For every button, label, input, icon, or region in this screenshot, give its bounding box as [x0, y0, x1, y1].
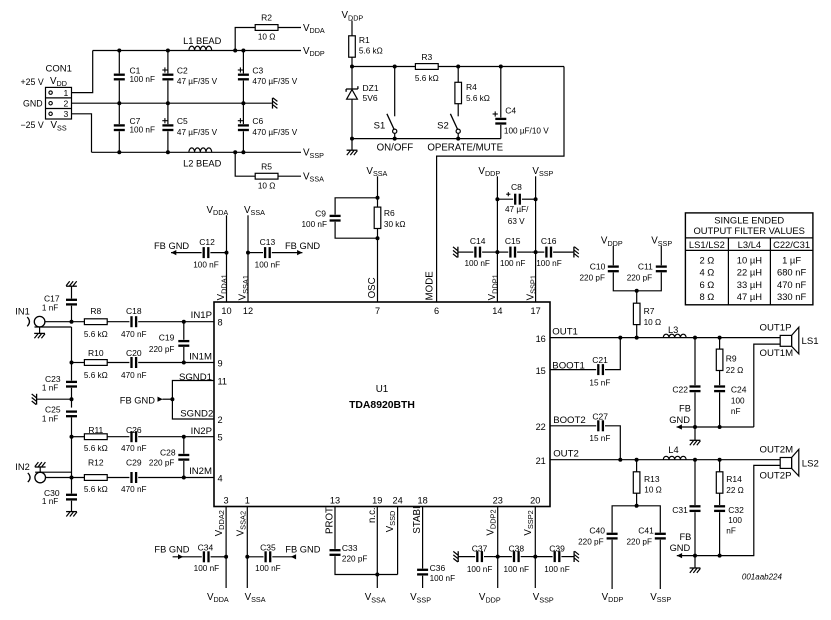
svg-text:30 kΩ: 30 kΩ [384, 220, 406, 229]
svg-text:C15: C15 [505, 236, 521, 246]
svg-text:C17: C17 [44, 294, 60, 304]
svg-text:R12: R12 [88, 458, 104, 468]
svg-text:220 pF: 220 pF [149, 459, 175, 468]
op-amp U1 TDA8920BTH body [214, 302, 550, 507]
capacitor C29 [107, 458, 214, 494]
svg-text:IN2: IN2 [15, 462, 29, 472]
svg-text:5.6 kΩ: 5.6 kΩ [359, 47, 383, 56]
wire VSSP2 pin 20 [534, 507, 536, 589]
svg-text:220 pF: 220 pF [578, 538, 604, 547]
svg-text:47 µF/35 V: 47 µF/35 V [177, 77, 218, 86]
wire CON1 pin3 to -rail [72, 114, 92, 153]
svg-text:5.6 kΩ: 5.6 kΩ [84, 371, 108, 380]
resistor R5 [233, 150, 301, 190]
svg-text:C16: C16 [541, 236, 557, 246]
resistor R2 [233, 12, 301, 52]
wire CON1 pin2 GND rail [72, 102, 272, 104]
resistor R13 [633, 460, 662, 508]
svg-text:R14: R14 [726, 474, 742, 484]
ground IN1 sleeve [34, 327, 71, 338]
svg-text:100 nF: 100 nF [430, 574, 456, 583]
capacitor C21 [550, 338, 620, 388]
svg-text:4: 4 [218, 473, 223, 483]
wire bottom -rail [92, 151, 302, 153]
wire VDDP2 pin 23 [497, 507, 499, 589]
svg-text:C6: C6 [252, 116, 263, 126]
svg-text:R7: R7 [644, 306, 655, 316]
resistor R6 [374, 196, 405, 240]
svg-text:1 nF: 1 nF [42, 384, 58, 393]
svg-text:PROT: PROT [325, 507, 336, 534]
svg-text:3: 3 [224, 496, 229, 506]
svg-text:100: 100 [731, 397, 745, 406]
ground below C30 [66, 512, 77, 517]
svg-text:LS2: LS2 [802, 458, 819, 469]
wire VDDA2 pin 3 [225, 507, 227, 589]
svg-text:100 µF/10 V: 100 µF/10 V [504, 126, 549, 135]
svg-text:33 µH: 33 µH [737, 279, 762, 290]
svg-text:13: 13 [330, 496, 340, 506]
svg-text:BOOT2: BOOT2 [553, 415, 586, 426]
svg-text:5.6 kΩ: 5.6 kΩ [466, 94, 490, 103]
svg-text:5.6 kΩ: 5.6 kΩ [84, 330, 108, 339]
resistor R4 and switch S2 [437, 65, 490, 139]
svg-text:SGND2: SGND2 [180, 409, 213, 420]
svg-text:C40: C40 [589, 526, 605, 536]
svg-text:R6: R6 [384, 208, 395, 218]
ferrite bead L1 [183, 36, 222, 51]
ferrite bead L2 [183, 148, 222, 169]
svg-text:FB GND: FB GND [285, 545, 320, 555]
svg-text:C1: C1 [130, 65, 141, 75]
capacitor C9 [302, 198, 378, 238]
svg-text:470 nF: 470 nF [121, 371, 147, 380]
svg-text:IN1P: IN1P [191, 310, 212, 321]
ground IN2 sleeve [35, 462, 72, 472]
svg-text:S2: S2 [437, 121, 449, 132]
wire top +rail [93, 50, 301, 52]
ground FB out2 [694, 556, 696, 568]
svg-text:1 µF: 1 µF [782, 255, 801, 266]
capacitor C36 [417, 507, 455, 589]
svg-text:C24: C24 [731, 384, 747, 394]
capacitor C10 [580, 246, 637, 291]
svg-text:C2: C2 [177, 65, 188, 75]
svg-text:C9: C9 [315, 208, 326, 218]
svg-text:C14: C14 [470, 236, 486, 246]
svg-text:C11: C11 [638, 262, 653, 272]
FB GND arrow to SGND [120, 396, 173, 406]
ground FB out1 [694, 427, 696, 440]
svg-text:11: 11 [218, 377, 228, 387]
wire OUT1 [550, 337, 780, 339]
svg-text:FB GND: FB GND [154, 545, 189, 555]
svg-text:R2: R2 [261, 12, 272, 22]
svg-text:10 Ω: 10 Ω [258, 33, 276, 42]
capacitor C6 [238, 103, 298, 154]
svg-text:470 µF/35 V: 470 µF/35 V [252, 128, 297, 137]
svg-text:SGND1: SGND1 [179, 372, 212, 383]
svg-text:C26: C26 [126, 425, 142, 435]
wire OUT2 [550, 459, 780, 461]
loudspeaker LS1 [780, 327, 818, 354]
svg-text:C22/C31: C22/C31 [773, 239, 810, 250]
svg-text:C18: C18 [126, 306, 142, 316]
svg-text:FB GND: FB GND [285, 241, 320, 251]
svg-text:C21: C21 [592, 355, 608, 365]
zener diode DZ1 [346, 67, 379, 139]
svg-text:nF: nF [726, 527, 736, 536]
svg-text:16: 16 [536, 334, 546, 344]
svg-text:R8: R8 [90, 306, 101, 316]
capacitor C26 [107, 425, 214, 453]
svg-text:680 nF: 680 nF [777, 267, 806, 278]
svg-text:C33: C33 [342, 543, 358, 553]
svg-text:1 nF: 1 nF [42, 497, 58, 506]
svg-text:IN2P: IN2P [191, 426, 212, 437]
capacitor C22 [672, 338, 700, 427]
svg-text:220 pF: 220 pF [580, 273, 606, 282]
svg-text:100 nF: 100 nF [130, 126, 156, 135]
svg-text:+25 V: +25 V [20, 77, 43, 87]
svg-text:GND: GND [669, 415, 690, 425]
svg-text:1 nF: 1 nF [42, 303, 58, 312]
svg-text:n.c.: n.c. [367, 507, 378, 523]
node R1/DZ1/R3 [350, 65, 354, 69]
svg-text:OUT2M: OUT2M [760, 445, 794, 456]
svg-text:OUT1P: OUT1P [760, 323, 792, 334]
svg-text:OPERATE/MUTE: OPERATE/MUTE [427, 142, 503, 153]
svg-text:R13: R13 [644, 474, 660, 484]
svg-text:470 µF/35 V: 470 µF/35 V [252, 77, 297, 86]
svg-text:R1: R1 [359, 35, 370, 45]
svg-text:OUT1M: OUT1M [760, 348, 794, 359]
svg-text:LS1: LS1 [802, 336, 819, 347]
svg-text:U1: U1 [376, 384, 389, 395]
svg-text:ON/OFF: ON/OFF [377, 142, 414, 153]
svg-text:10 Ω: 10 Ω [644, 485, 662, 494]
resistor R11 [70, 425, 108, 453]
svg-text:FB: FB [679, 404, 691, 414]
svg-text:220 pF: 220 pF [627, 273, 653, 282]
svg-text:8 Ω: 8 Ω [699, 291, 714, 302]
capacitor C13 with FB GND arrow [248, 237, 320, 270]
capacitor C7 [114, 103, 155, 154]
svg-text:15 nF: 15 nF [589, 434, 610, 443]
svg-text:100 nF: 100 nF [464, 259, 490, 268]
pin numbers right edge [536, 334, 546, 466]
resistor R10 [70, 348, 108, 380]
svg-text:C8: C8 [511, 182, 522, 192]
svg-text:OSC: OSC [367, 277, 378, 298]
svg-text:20: 20 [530, 496, 540, 506]
svg-text:IN1: IN1 [15, 306, 29, 316]
svg-text:2 Ω: 2 Ω [699, 255, 714, 266]
wire switch bottom rail [352, 138, 501, 140]
svg-text:R9: R9 [726, 354, 737, 364]
svg-text:FB: FB [679, 532, 691, 542]
svg-text:100 nF: 100 nF [193, 260, 219, 269]
svg-text:470 nF: 470 nF [121, 330, 147, 339]
ground below DZ1 [351, 139, 353, 150]
svg-text:TDA8920BTH: TDA8920BTH [349, 400, 415, 411]
svg-text:nF: nF [731, 407, 741, 416]
svg-text:C31: C31 [672, 505, 688, 515]
svg-text:R3: R3 [421, 52, 432, 62]
ground mid rail [273, 98, 278, 109]
wire input ground bus [71, 327, 73, 381]
svg-text:18: 18 [417, 496, 427, 506]
svg-text:100 nF: 100 nF [194, 564, 220, 573]
svg-text:5.6 kΩ: 5.6 kΩ [415, 74, 439, 83]
svg-text:19: 19 [372, 496, 382, 506]
svg-text:IN1M: IN1M [189, 352, 212, 363]
svg-text:5.6 kΩ: 5.6 kΩ [84, 485, 108, 494]
wire mode top rail [352, 66, 564, 68]
input jack IN1 [15, 306, 45, 327]
svg-text:100 nF: 100 nF [255, 564, 281, 573]
svg-text:OUT2P: OUT2P [760, 470, 792, 481]
svg-text:10: 10 [221, 306, 231, 316]
svg-text:C13: C13 [260, 237, 276, 247]
svg-text:10 Ω: 10 Ω [258, 182, 276, 191]
svg-text:MODE: MODE [425, 271, 436, 301]
capacitor C30 [42, 478, 77, 512]
svg-text:R5: R5 [261, 162, 272, 172]
svg-text:470 nF: 470 nF [777, 279, 806, 290]
capacitor C28 [149, 437, 189, 478]
svg-text:5: 5 [218, 433, 223, 443]
wire FB GND row 2 [677, 555, 755, 557]
svg-text:S1: S1 [374, 121, 386, 132]
svg-text:10 µH: 10 µH [737, 255, 762, 266]
svg-text:L3/L4: L3/L4 [738, 239, 761, 250]
resistor R1 [349, 35, 383, 57]
svg-text:C36: C36 [430, 563, 446, 573]
svg-text:100 nF: 100 nF [302, 220, 328, 229]
resistor R14 [716, 460, 744, 505]
svg-text:22 µH: 22 µH [737, 267, 762, 278]
ground right of C16 [574, 247, 579, 258]
svg-text:100 nF: 100 nF [130, 75, 156, 84]
capacitor C34 with FB GND arrow [154, 542, 226, 573]
wire OUT2P return [754, 465, 780, 555]
svg-text:L1 BEAD: L1 BEAD [183, 36, 222, 46]
svg-text:5V6: 5V6 [363, 93, 378, 103]
capacitor C16 [531, 236, 573, 268]
svg-text:L4: L4 [668, 445, 678, 455]
svg-text:100 nF: 100 nF [536, 259, 562, 268]
capacitor C11 [627, 246, 667, 291]
capacitor C1 [114, 49, 155, 106]
svg-text:1 nF: 1 nF [42, 414, 58, 423]
svg-text:C34: C34 [198, 542, 214, 552]
ground left of C37 [453, 551, 458, 562]
svg-text:1: 1 [245, 496, 250, 506]
svg-text:C19: C19 [159, 333, 175, 343]
svg-text:C37: C37 [472, 543, 488, 553]
svg-text:CON1: CON1 [46, 63, 72, 74]
svg-text:C39: C39 [549, 543, 565, 553]
resistor R9 [716, 338, 743, 386]
svg-text:100 nF: 100 nF [467, 565, 493, 574]
capacitor C20 [107, 348, 214, 380]
capacitor C18 [107, 306, 214, 339]
svg-text:FB GND: FB GND [120, 396, 155, 406]
wire VDDA1 pin10 [226, 215, 228, 302]
svg-text:FB GND: FB GND [154, 241, 189, 251]
svg-text:DZ1: DZ1 [363, 83, 379, 93]
svg-text:R10: R10 [88, 348, 104, 358]
wire R1 to node [351, 57, 353, 66]
svg-text:15 nF: 15 nF [589, 379, 610, 388]
capacitor C4 [493, 65, 550, 139]
output filter values table [685, 213, 813, 305]
bracket SGND1 SGND2 [172, 381, 214, 420]
svg-text:−25 V: −25 V [20, 120, 43, 130]
switch S1 [374, 65, 397, 139]
wire OSC pin [377, 176, 379, 302]
svg-text:BOOT1: BOOT1 [552, 360, 585, 371]
svg-text:C41: C41 [638, 526, 654, 536]
svg-text:C7: C7 [130, 116, 141, 126]
svg-text:C29: C29 [126, 458, 142, 468]
svg-text:100 nF: 100 nF [544, 565, 570, 574]
svg-text:10 Ω: 10 Ω [644, 318, 662, 327]
svg-text:470 nF: 470 nF [121, 485, 147, 494]
wire VSSA1 pin12 [247, 215, 249, 302]
input jack IN2 [15, 462, 45, 483]
connector CON1 [46, 63, 72, 119]
svg-text:OUT1: OUT1 [552, 326, 578, 337]
svg-text:C28: C28 [160, 448, 176, 458]
capacitor C25 [42, 405, 77, 424]
wire VDDP1 pin [496, 176, 498, 302]
capacitor C19 [149, 322, 189, 363]
ground left of bus [32, 394, 74, 405]
ground above C17 [66, 281, 77, 286]
svg-text:STABI: STABI [412, 506, 423, 533]
capacitor C12 with FB GND arrow [154, 237, 227, 270]
svg-text:470 nF: 470 nF [121, 444, 147, 453]
capacitor C33 [330, 507, 398, 575]
wire VSSA2 pin 1 [246, 507, 248, 589]
svg-text:C27: C27 [592, 412, 608, 422]
svg-text:12: 12 [243, 306, 253, 316]
svg-text:SINGLE ENDED: SINGLE ENDED [714, 214, 784, 225]
svg-text:5.6 kΩ: 5.6 kΩ [84, 444, 108, 453]
loudspeaker LS2 [780, 449, 819, 476]
capacitor C15 [493, 236, 531, 268]
wire VSSD pin 24 [397, 507, 399, 575]
capacitor C23 [42, 374, 77, 392]
wire CON1 pin1 to +rail [72, 51, 93, 93]
capacitor C27 [550, 412, 620, 460]
svg-text:C10: C10 [590, 262, 606, 272]
capacitor C35 with FB GND arrow [247, 542, 320, 573]
svg-text:220 pF: 220 pF [149, 345, 175, 354]
svg-text:220 pF: 220 pF [627, 538, 653, 547]
wire OUT1M return [754, 344, 780, 427]
svg-text:C32: C32 [728, 505, 744, 515]
resistor R12 [84, 458, 108, 494]
svg-text:7: 7 [375, 306, 380, 316]
svg-text:100 nF: 100 nF [500, 259, 526, 268]
capacitor C5 [162, 103, 217, 154]
svg-text:6: 6 [434, 306, 439, 316]
svg-text:63 V: 63 V [508, 217, 525, 226]
svg-text:C35: C35 [260, 542, 276, 552]
svg-text:R4: R4 [466, 82, 477, 92]
svg-text:1: 1 [64, 88, 69, 98]
svg-text:001aab224: 001aab224 [742, 572, 783, 581]
wire IN1 signal [45, 321, 85, 323]
wire FB GND row 1 [677, 426, 754, 428]
capacitor C40 [578, 506, 637, 589]
svg-text:C38: C38 [509, 543, 525, 553]
svg-text:14: 14 [492, 306, 502, 316]
capacitor C38 [494, 543, 531, 574]
svg-text:100 nF: 100 nF [504, 565, 530, 574]
svg-text:OUTPUT FILTER VALUES: OUTPUT FILTER VALUES [693, 225, 804, 236]
svg-text:47 µH: 47 µH [737, 291, 762, 302]
svg-text:9: 9 [218, 358, 223, 368]
inductor L3 [663, 325, 686, 338]
wire VDDP to R1 [351, 21, 353, 36]
svg-text:3: 3 [64, 109, 69, 119]
svg-text:47 µF/: 47 µF/ [505, 205, 529, 214]
wire VSSP1 pin [535, 176, 537, 302]
svg-text:R11: R11 [88, 425, 103, 435]
svg-text:6 Ω: 6 Ω [699, 279, 714, 290]
capacitor C14 [458, 236, 493, 268]
pin numbers top edge [221, 306, 540, 316]
capacitor C3 [238, 49, 298, 106]
svg-text:220 pF: 220 pF [342, 554, 368, 563]
ground left of C14 [453, 247, 458, 258]
svg-text:24: 24 [392, 496, 402, 506]
svg-text:22 Ω: 22 Ω [726, 366, 744, 375]
svg-text:15: 15 [536, 366, 546, 376]
svg-text:22 Ω: 22 Ω [726, 486, 744, 495]
capacitor C41 [627, 506, 666, 589]
svg-text:C25: C25 [45, 405, 61, 415]
pin numbers bottom edge [224, 496, 541, 506]
svg-text:8: 8 [218, 318, 223, 328]
capacitor C24 [714, 384, 747, 427]
capacitor C31 [672, 460, 700, 556]
resistor R8 [84, 306, 108, 339]
svg-text:C12: C12 [199, 237, 215, 247]
svg-text:LS1/LS2: LS1/LS2 [689, 239, 725, 250]
capacitor C32 [714, 505, 744, 555]
svg-text:C3: C3 [252, 65, 263, 75]
resistor R7 [633, 289, 661, 338]
ground right of C39 [574, 551, 579, 562]
capacitor C2 [162, 49, 217, 106]
svg-text:2: 2 [218, 415, 223, 425]
wire IN2 signal [46, 477, 85, 479]
capacitor C37 [458, 543, 493, 574]
svg-text:C5: C5 [177, 116, 188, 126]
svg-text:17: 17 [530, 306, 540, 316]
inductor L4 [663, 445, 686, 460]
svg-text:L2 BEAD: L2 BEAD [183, 159, 222, 169]
svg-text:IN2M: IN2M [189, 466, 212, 477]
svg-text:2: 2 [64, 98, 69, 108]
svg-text:23: 23 [493, 496, 503, 506]
wire n.c. pin 19 [376, 507, 378, 589]
